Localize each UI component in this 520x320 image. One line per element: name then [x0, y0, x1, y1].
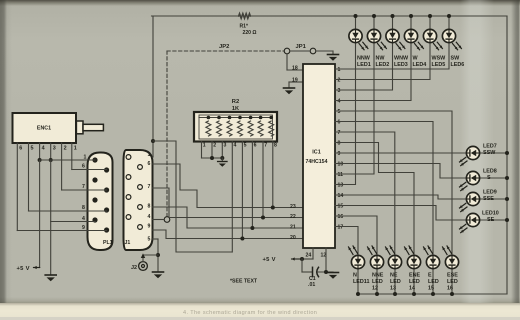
- svg-text:5: 5: [244, 143, 247, 149]
- svg-text:14: 14: [409, 286, 415, 292]
- svg-text:.01: .01: [308, 282, 315, 288]
- svg-text:PL1: PL1: [103, 240, 113, 246]
- wire LED6 stubs: [447, 14, 451, 29]
- svg-text:IC1: IC1: [312, 150, 320, 156]
- svg-text:6: 6: [82, 164, 85, 170]
- svg-text:2: 2: [338, 78, 341, 84]
- wire pin 16 to LED12: [335, 216, 377, 255]
- ground at R2: [218, 158, 227, 167]
- PL1 pin labels: [82, 155, 87, 232]
- svg-text:LED8: LED8: [483, 169, 497, 175]
- svg-text:JP1: JP1: [296, 44, 307, 50]
- label LED8: [483, 169, 497, 182]
- svg-text:220 Ω: 220 Ω: [243, 30, 257, 36]
- ground at ENC pin 3: [45, 275, 56, 281]
- svg-text:LED2: LED2: [376, 62, 390, 68]
- svg-text:LED4: LED4: [413, 62, 427, 68]
- svg-text:N: N: [353, 273, 357, 279]
- label LED10: [482, 211, 499, 224]
- svg-text:WNW: WNW: [394, 56, 409, 62]
- ground at IC pin 12: [328, 273, 339, 279]
- svg-text:1: 1: [338, 67, 341, 73]
- label LED16: [447, 273, 458, 292]
- svg-text:13: 13: [390, 286, 396, 292]
- wire common to PL1 pin 1: [40, 159, 95, 161]
- svg-text:9: 9: [82, 225, 85, 231]
- wire J1 pin 4 to JP2: [153, 219, 165, 221]
- wire LED3 stubs: [391, 14, 395, 29]
- wire pin 3 to LED3: [335, 43, 393, 90]
- wire LED10 to bus: [480, 218, 509, 222]
- svg-text:NNW: NNW: [357, 56, 371, 62]
- label LED13: [390, 273, 401, 292]
- wire LED2 stubs: [372, 14, 376, 29]
- svg-text:5: 5: [148, 237, 151, 243]
- svg-text:JP2: JP2: [219, 44, 229, 50]
- wire LED5 stubs: [428, 14, 432, 29]
- svg-text:6: 6: [148, 161, 151, 167]
- LED LED4 W: [404, 29, 423, 49]
- resistor R1: [239, 14, 257, 36]
- svg-text:15: 15: [338, 204, 344, 210]
- ground at IC pin 19: [284, 88, 295, 94]
- wire LED8 to bus: [480, 176, 509, 180]
- svg-text:LED6: LED6: [451, 62, 465, 68]
- svg-text:4: 4: [42, 146, 45, 152]
- svg-text:3: 3: [338, 88, 341, 94]
- svg-text:J2: J2: [131, 265, 137, 271]
- wire +5V top bus: [152, 15, 508, 17]
- wire J1 pin 5 to ground: [153, 239, 159, 272]
- svg-text:2: 2: [64, 146, 67, 152]
- svg-text:LED: LED: [409, 279, 420, 285]
- svg-text:LED3: LED3: [394, 62, 408, 68]
- LED LED2 NW: [367, 29, 386, 49]
- wire pin 2 to LED5: [335, 43, 430, 80]
- svg-text:7: 7: [338, 130, 341, 136]
- wire bottom bus: [357, 293, 507, 295]
- svg-text:4: 4: [338, 99, 341, 105]
- LED LED1 NNW: [349, 29, 368, 49]
- R2 pin stubs: [202, 142, 273, 144]
- LED LED5 WSW: [423, 29, 442, 49]
- svg-text:SE: SE: [487, 217, 495, 223]
- wire J1 pin 9 to IC pin 20: [153, 230, 304, 239]
- wire LED1 stubs: [354, 14, 358, 29]
- wire pin 5 to LED16: [335, 111, 452, 255]
- wire IC pin 12 to ground: [324, 248, 328, 274]
- svg-text:12: 12: [372, 286, 378, 292]
- svg-text:18: 18: [292, 66, 298, 72]
- LED LED3 WNW: [386, 29, 405, 49]
- svg-text:R1*: R1*: [240, 23, 249, 29]
- svg-text:LED1: LED1: [357, 62, 371, 68]
- svg-text:LED5: LED5: [432, 62, 446, 68]
- svg-text:8: 8: [82, 205, 85, 211]
- label LED15: [428, 273, 439, 292]
- svg-text:5: 5: [338, 109, 341, 115]
- svg-text:74HC154: 74HC154: [306, 159, 328, 165]
- svg-text:13: 13: [338, 183, 344, 189]
- wire ENC pin 2 to PL1 pin 7: [62, 143, 107, 190]
- wire +5V riser to J1 pin 1: [152, 16, 155, 157]
- svg-text:J1: J1: [125, 240, 131, 246]
- svg-text:3: 3: [53, 146, 56, 152]
- ENC1 pin labels: [19, 146, 77, 152]
- svg-text:ENC1: ENC1: [37, 126, 51, 132]
- svg-text:+5 V: +5 V: [17, 266, 30, 272]
- svg-text:23: 23: [290, 204, 296, 210]
- svg-text:S: S: [487, 175, 491, 181]
- jumper JP2 dashed wire: [167, 44, 284, 216]
- svg-text:*SEE TEXT: *SEE TEXT: [230, 279, 258, 285]
- svg-text:6: 6: [338, 120, 341, 126]
- wire pin 10 to LED8: [335, 164, 466, 179]
- LED LED7 SSW: [460, 146, 480, 165]
- svg-text:1: 1: [74, 146, 77, 152]
- wire ENC pin 6 to PL1 pin 9: [17, 143, 106, 231]
- note see text: [230, 279, 258, 285]
- svg-text:10: 10: [338, 162, 344, 168]
- caption: [183, 310, 317, 316]
- svg-text:15: 15: [428, 286, 434, 292]
- wire C1 to ground: [318, 271, 334, 273]
- wire pin 11 to LED2: [335, 43, 374, 174]
- svg-text:E: E: [428, 273, 432, 279]
- label LED2: [376, 56, 390, 69]
- connector PL1: [88, 153, 113, 251]
- svg-text:8: 8: [148, 204, 151, 210]
- wire J1 pin 8 to IC pin 21: [153, 207, 304, 228]
- wire pin 7 to LED13: [335, 132, 395, 255]
- svg-text:21: 21: [290, 225, 296, 231]
- wire IC pin 19 to ground: [289, 82, 303, 88]
- svg-text:14: 14: [338, 193, 344, 199]
- jumper JP1: [284, 44, 316, 54]
- svg-text:1K: 1K: [232, 106, 239, 112]
- +5V supply arrow left: [17, 266, 40, 272]
- LED LED16 ESE: [443, 246, 459, 269]
- label LED5: [432, 56, 447, 69]
- jumper JP2 terminal circle: [164, 217, 170, 223]
- wire right bus: [506, 16, 508, 294]
- svg-text:SW: SW: [451, 56, 461, 62]
- svg-text:SSW: SSW: [483, 150, 496, 156]
- wire pin 15 to LED10: [335, 206, 466, 221]
- LED LED12 NNE: [368, 246, 384, 269]
- svg-text:+5 V: +5 V: [263, 257, 276, 263]
- wire R2 pin 5 to IC pin 20: [240, 143, 244, 241]
- R2 internal resistors: [199, 116, 274, 136]
- wire ENC pin 3 to PL1 pin 4: [51, 160, 95, 275]
- svg-text:NNE: NNE: [372, 273, 384, 279]
- wire LED16 bottom stub: [450, 269, 454, 296]
- svg-text:NW: NW: [376, 56, 386, 62]
- wire +5V branch to R2 pin 4: [153, 141, 232, 252]
- svg-text:20: 20: [290, 235, 296, 241]
- J1 pin labels: [148, 152, 151, 243]
- wire ENC pin 3 common: [50, 143, 52, 160]
- wire LED12 bottom stub: [375, 269, 379, 296]
- IC1 pin 12 label: [321, 253, 327, 259]
- wire ENC pin 4 to +5V: [34, 160, 40, 268]
- svg-text:SSE: SSE: [483, 196, 494, 202]
- svg-text:4: 4: [148, 214, 151, 220]
- svg-text:5: 5: [31, 146, 34, 152]
- node R2 pin 2 junction: [210, 156, 214, 160]
- connector J1: [124, 150, 153, 250]
- svg-text:LED: LED: [428, 279, 439, 285]
- label LED14: [409, 273, 420, 292]
- label LED12: [372, 273, 384, 292]
- IC1 right pin labels: [338, 67, 344, 231]
- wire R2 pins 1-3 ground bus: [202, 143, 223, 158]
- svg-text:ENE: ENE: [409, 273, 420, 279]
- node R2 pin 3 junction: [220, 156, 224, 160]
- label LED6: [451, 56, 465, 69]
- wire ENC pin 4 common: [39, 143, 41, 160]
- wire pin 14 to LED9: [335, 195, 466, 199]
- svg-text:17: 17: [338, 225, 344, 231]
- label LED1: [357, 56, 371, 69]
- svg-text:4: 4: [82, 216, 85, 222]
- LED LED15 E: [424, 246, 440, 269]
- svg-text:19: 19: [292, 78, 298, 84]
- resistor network R2: [194, 99, 277, 142]
- wire LED7 to bus: [480, 151, 509, 155]
- node +5V junction: [300, 257, 304, 261]
- wire pin 4 to LED4: [335, 43, 411, 101]
- svg-text:8: 8: [274, 143, 277, 149]
- svg-text:24: 24: [306, 253, 312, 259]
- encoder ENC1: [13, 113, 104, 143]
- LED LED10 SE: [460, 213, 480, 232]
- wire pin 9 to LED7: [335, 152, 466, 154]
- wire R2 pin 8 to IC pin 23: [271, 143, 275, 210]
- +5V supply arrow at IC: [263, 257, 302, 263]
- svg-text:9: 9: [338, 151, 341, 157]
- LED LED6 SW: [442, 29, 461, 49]
- svg-text:4: 4: [234, 143, 237, 149]
- svg-text:16: 16: [338, 214, 344, 220]
- svg-text:8: 8: [338, 141, 341, 147]
- label LED7: [483, 144, 497, 157]
- wire JP1 to IC pin 18: [287, 54, 303, 70]
- svg-text:1: 1: [84, 155, 87, 161]
- wire LED11 bottom stub: [356, 269, 360, 296]
- LED LED8 S: [460, 171, 480, 190]
- wire ENC pin 1 to PL1 pin 6: [72, 143, 107, 170]
- ground at JP1: [328, 55, 339, 61]
- svg-text:7: 7: [82, 184, 85, 190]
- wire LED9 to bus: [480, 197, 509, 201]
- svg-text:LED10: LED10: [482, 211, 499, 217]
- svg-text:6: 6: [19, 146, 22, 152]
- wire J1 pin 7 to IC pin 22: [153, 188, 304, 218]
- svg-text:LED: LED: [447, 279, 458, 285]
- svg-text:NE: NE: [390, 273, 398, 279]
- svg-text:LED9: LED9: [483, 190, 497, 196]
- wire R2 pin 6 to IC pin 21: [250, 143, 254, 230]
- wire pin 17 to LED11: [335, 227, 358, 256]
- capacitor C1: [308, 267, 319, 288]
- svg-text:2: 2: [213, 143, 216, 149]
- wire pin 13 to LED1: [335, 43, 356, 185]
- wire to C1: [302, 259, 312, 272]
- node J2 junction: [156, 253, 160, 257]
- ground at J1 pin 5: [153, 272, 164, 278]
- IC1 pin 24 label: [306, 253, 312, 259]
- svg-text:6: 6: [254, 143, 257, 149]
- svg-text:16: 16: [447, 286, 453, 292]
- LED LED13 NE: [386, 246, 402, 269]
- node ENC pin 3 junction: [49, 158, 53, 162]
- wire J2 to ground net: [141, 253, 158, 261]
- IC1 left pin labels: [290, 66, 298, 242]
- svg-text:3: 3: [224, 143, 227, 149]
- svg-text:LED: LED: [372, 279, 383, 285]
- wire J1 pin 6 to IC pin 23: [153, 164, 304, 208]
- wire R2 pin 7 to IC pin 22: [261, 143, 265, 220]
- LED LED9 SSE: [460, 192, 480, 211]
- wire JP1 to ground: [316, 51, 333, 54]
- svg-text:1: 1: [203, 143, 206, 149]
- svg-text:LED7: LED7: [483, 144, 497, 150]
- svg-text:W: W: [413, 56, 419, 62]
- wire pin 6 to LED15: [335, 122, 433, 256]
- node ENC pin 4 junction: [38, 158, 42, 162]
- node riser junction: [151, 139, 155, 143]
- label LED3: [394, 56, 409, 69]
- wire pin 1 to LED6: [335, 43, 449, 69]
- svg-text:7: 7: [264, 143, 267, 149]
- LED LED11 N: [349, 246, 365, 269]
- label LED9: [483, 190, 497, 203]
- svg-text:LED11: LED11: [353, 279, 369, 285]
- op-amp U1 IC1 74HC154: [303, 64, 335, 248]
- svg-text:ESE: ESE: [447, 273, 458, 279]
- connector J2: [131, 262, 147, 271]
- R2 pin labels: [203, 143, 277, 149]
- wire LED14 bottom stub: [412, 269, 416, 296]
- wire IC pin 24: [302, 248, 313, 259]
- svg-text:LED: LED: [390, 279, 401, 285]
- label LED11: [353, 273, 369, 286]
- wire R2 pin 4 drop: [231, 143, 233, 252]
- svg-text:9: 9: [148, 224, 151, 230]
- wire LED15 bottom stub: [431, 269, 435, 296]
- svg-text:R2: R2: [232, 99, 239, 105]
- svg-text:7: 7: [148, 184, 151, 190]
- label LED4: [413, 56, 427, 69]
- wire pin 8 to LED14: [335, 143, 414, 256]
- wire LED4 stubs: [409, 14, 413, 29]
- wire ENC pin 5 to PL1 pin 8: [29, 143, 107, 211]
- wire LED13 bottom stub: [393, 269, 397, 296]
- LED LED14 ENE: [405, 246, 421, 269]
- svg-text:WSW: WSW: [432, 56, 447, 62]
- svg-text:11: 11: [338, 172, 344, 178]
- svg-text:22: 22: [290, 214, 296, 220]
- svg-text:1: 1: [148, 152, 151, 158]
